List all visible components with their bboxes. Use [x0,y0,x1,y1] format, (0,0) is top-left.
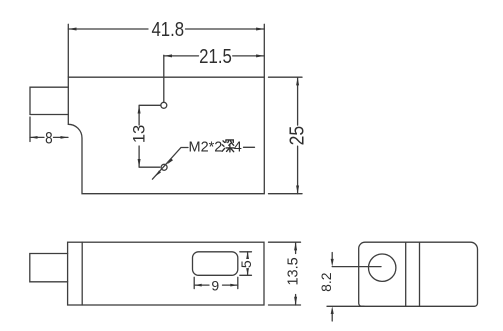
svg-text:4: 4 [234,139,242,155]
arrow 13.5 top [294,242,297,250]
glyph 深 (hand-drawn strokes) [222,140,234,152]
end view hole circle [369,254,396,281]
dimension 41.8 extension right [263,24,265,77]
svg-text:13: 13 [130,125,148,143]
dimension 8.2 bottom extension [327,305,364,307]
dimension 25 extension top [269,76,303,78]
side view step line [81,242,83,305]
svg-text:25: 25 [286,126,308,146]
svg-text:8.2: 8.2 [318,272,334,292]
dimension 8 line [30,136,68,138]
arrow 21.5 right [256,54,264,57]
arrow 8.2 bottom (outside pointing up) [331,306,334,314]
arrow 13 top [138,105,141,113]
arrow leader upper at hole [167,158,173,164]
arrow 9 left [194,284,202,287]
svg-text:21.5: 21.5 [199,44,232,67]
arrow 8 right [61,136,69,139]
top view left tab [30,87,68,114]
dimension 9 extensions [194,277,238,288]
wire: thread slash through lower hole [152,148,188,180]
arrow 25 bottom [296,186,299,194]
svg-text:13.5: 13.5 [285,257,301,285]
dimension 13 line [139,105,161,167]
dimension 8.2 bottom tail [331,314,333,322]
dimension 8 extension left [29,117,31,142]
arrow leader lower [155,170,161,176]
end view body outline [359,242,478,306]
dimension 8.2 top tail [331,253,333,260]
dimension 21.5 extension to hole [163,55,165,102]
arrow 21.5 left [164,54,172,57]
side view left tab [30,254,68,282]
arrow 25 top [296,77,299,85]
side view slot [193,252,238,275]
hole circle upper [161,102,167,108]
side view body outline [68,242,264,305]
svg-text:8: 8 [45,129,53,148]
dimension 8.2 leader to circle center [332,266,381,268]
arrow 5 top [246,252,249,259]
wire: leader tail right of text [244,146,255,148]
arrow 8.2 top (outside pointing down) [331,259,334,267]
dimension 9 line [194,284,238,286]
top view body outline [68,77,264,194]
dimension 13.5 extension bottom [269,304,301,306]
svg-text:M2*2: M2*2 [189,139,223,155]
dimension 41.8 line [68,28,264,30]
arrow 41.8 right [256,28,264,31]
hole circle lower (tapped M2) [161,164,167,170]
arrow 5 bottom [246,268,249,275]
arrow 13 bottom [138,159,141,167]
arrow 9 right [230,284,238,287]
arrow 13.5 bottom [294,297,297,305]
end view inner line 1 [405,242,407,306]
dimension 25 line [297,77,299,194]
svg-text:41.8: 41.8 [151,18,184,41]
arrow 8 left [30,136,38,139]
dimension 13.5 line [295,242,297,305]
dimension 25 extension bottom [269,193,303,195]
svg-text:9: 9 [211,277,219,293]
end view inner line 2 [419,242,421,306]
dimension 5 extensions [240,252,252,275]
dimension 13.5 extension top [269,241,301,243]
dimension 21.5 line [164,55,264,57]
dimension 41.8 extension left [67,24,69,77]
svg-text:5: 5 [238,260,254,268]
arrow 41.8 left [68,28,76,31]
dimension 5 line stubs [247,252,249,275]
